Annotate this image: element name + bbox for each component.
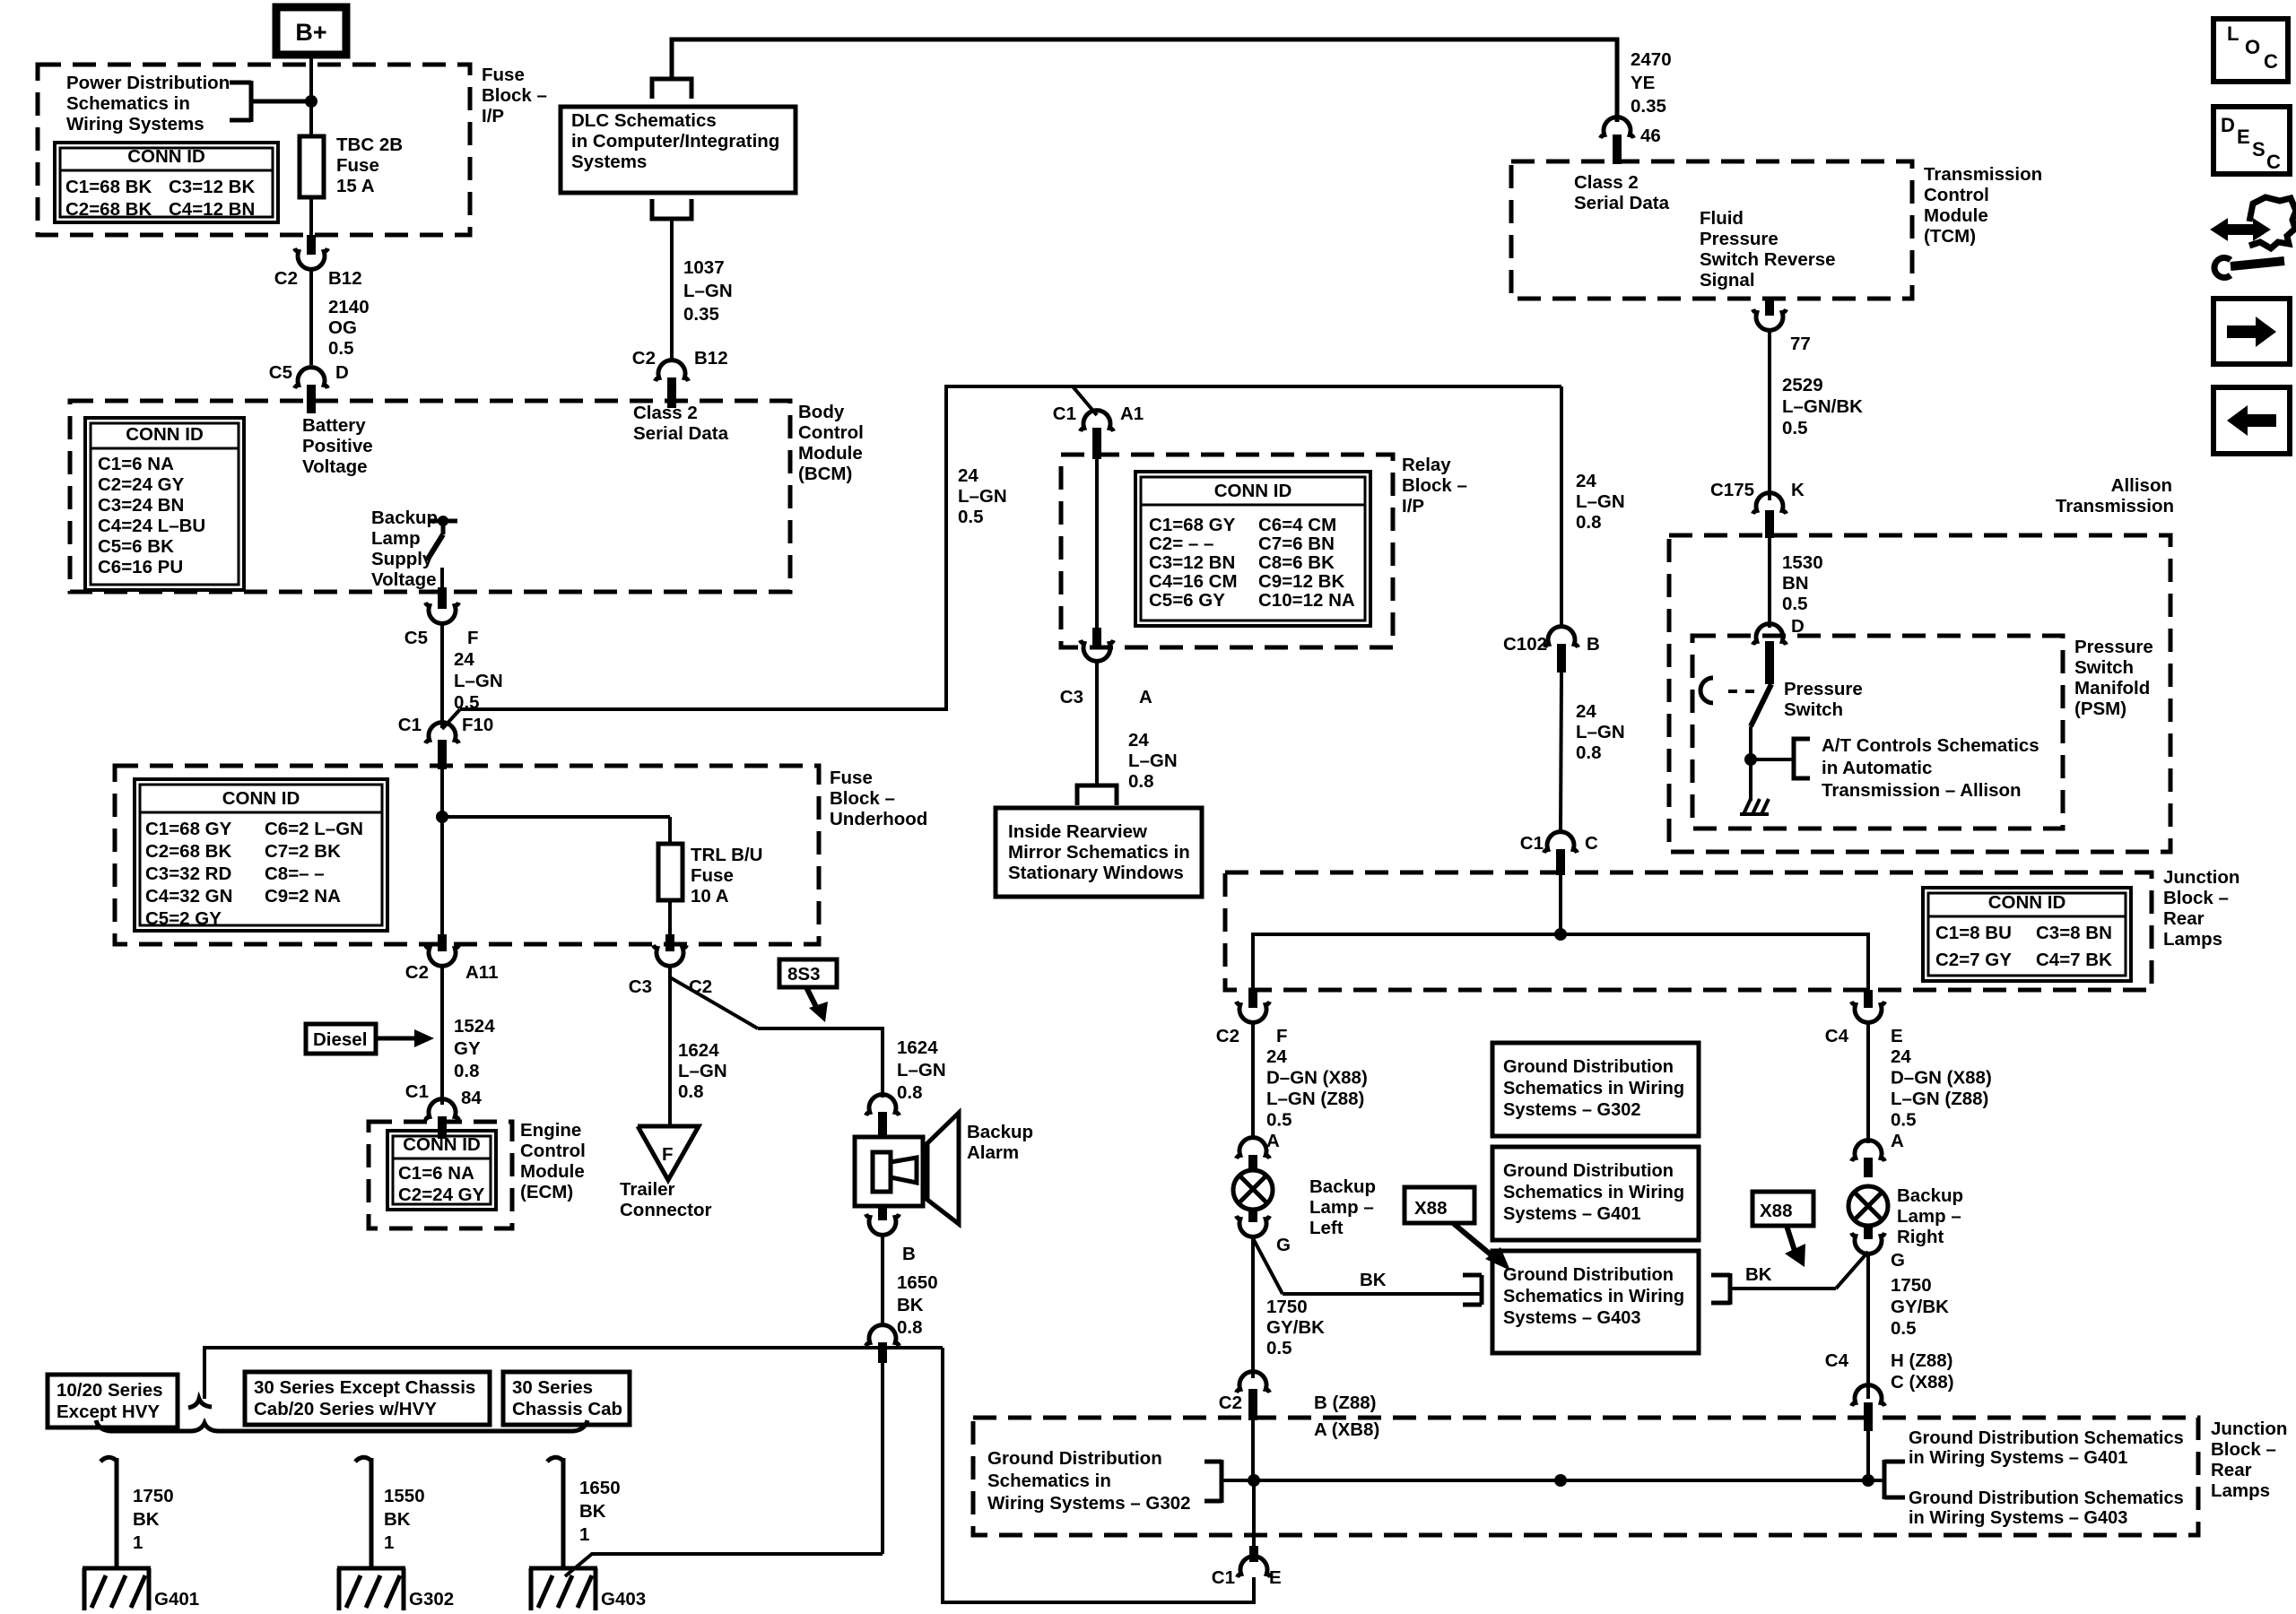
svg-text:DLC Schematics: DLC Schematics xyxy=(571,110,717,131)
power node B+ xyxy=(276,7,346,55)
ground distribution G401 box xyxy=(1492,1147,1699,1240)
PSM internal ground splice xyxy=(1744,735,2039,801)
svg-text:C5=2 GY: C5=2 GY xyxy=(145,908,222,929)
ground G401 xyxy=(83,1568,199,1610)
svg-text:C1=68 GY: C1=68 GY xyxy=(145,819,232,839)
ground wire 1750 BK 1 xyxy=(100,1457,174,1568)
ground distribution G302 box xyxy=(1492,1043,1699,1136)
svg-text:24: 24 xyxy=(1266,1046,1287,1067)
svg-text:C3=12 BK: C3=12 BK xyxy=(169,177,255,197)
connector C2 B12 into BCM xyxy=(632,348,728,408)
svg-text:Relay: Relay xyxy=(1402,455,1451,475)
svg-text:(ECM): (ECM) xyxy=(520,1182,573,1202)
inside rearview mirror schematics box xyxy=(996,785,1202,897)
svg-text:TRL B/U: TRL B/U xyxy=(691,845,762,865)
wire 1530 BN 0.5 xyxy=(1770,538,1823,637)
wire 1524 GY 0.8 84 xyxy=(442,967,495,1108)
connector into backup alarm xyxy=(866,1095,900,1137)
splice on ground line xyxy=(866,1325,900,1554)
transmission control module TCM box xyxy=(1511,161,2042,299)
svg-text:C: C xyxy=(1585,833,1598,854)
svg-text:Pressure: Pressure xyxy=(1784,679,1863,699)
X88 tag right xyxy=(1752,1192,1813,1267)
X88 tag left xyxy=(1405,1187,1510,1271)
BK wire left lamp to G403 xyxy=(1253,1238,1482,1305)
svg-text:BK: BK xyxy=(133,1509,160,1530)
svg-text:CONN ID: CONN ID xyxy=(222,788,300,809)
svg-text:C1=6 NA: C1=6 NA xyxy=(398,1163,474,1184)
svg-text:Cab/20 Series w/HVY: Cab/20 Series w/HVY xyxy=(254,1399,437,1419)
svg-text:F: F xyxy=(467,628,479,648)
svg-text:CONN ID: CONN ID xyxy=(126,424,204,445)
svg-text:Ground Distribution: Ground Distribution xyxy=(1503,1265,1674,1285)
svg-text:Ground Distribution: Ground Distribution xyxy=(1503,1161,1674,1181)
wire 24 D-GN X88 L-GN Z88 right xyxy=(1868,1023,1992,1151)
series tag 30 Series Chassis Cab xyxy=(503,1372,630,1425)
svg-text:X88: X88 xyxy=(1760,1201,1792,1221)
svg-text:Allison: Allison xyxy=(2111,475,2172,496)
svg-text:C1=8 BU: C1=8 BU xyxy=(1935,923,2012,943)
pressure switch xyxy=(1700,678,1863,801)
svg-text:0.5: 0.5 xyxy=(1782,418,1808,438)
svg-text:I/P: I/P xyxy=(482,106,504,126)
svg-text:E: E xyxy=(2237,126,2250,148)
svg-text:C6=2 L–GN: C6=2 L–GN xyxy=(265,819,363,839)
svg-text:Schematics in Wiring: Schematics in Wiring xyxy=(1503,1079,1684,1098)
connector C1 A1 into relay block xyxy=(1053,386,1144,459)
svg-text:1750: 1750 xyxy=(1266,1297,1308,1317)
wire 1650 BK 0.8 xyxy=(883,1236,938,1338)
svg-text:Systems: Systems xyxy=(571,152,647,172)
svg-text:Class 2: Class 2 xyxy=(1574,172,1639,193)
svg-text:0.5: 0.5 xyxy=(328,338,354,359)
svg-text:C5: C5 xyxy=(404,628,428,648)
brackets to G401 G403 notes xyxy=(1868,1428,2184,1528)
wire B+ to fuse xyxy=(309,55,313,136)
series tag 30 Series Except Chassis Cab/20 Series w/HVY xyxy=(245,1372,490,1425)
svg-text:Pressure: Pressure xyxy=(2074,637,2153,657)
svg-text:1750: 1750 xyxy=(133,1486,174,1506)
svg-text:C5=6 GY: C5=6 GY xyxy=(1149,590,1225,611)
svg-text:C1: C1 xyxy=(1212,1567,1235,1588)
bottom bus in junction block xyxy=(1248,1420,1874,1487)
svg-text:Power Distribution: Power Distribution xyxy=(66,73,230,93)
icon DESC xyxy=(2213,107,2290,174)
svg-text:Switch: Switch xyxy=(2074,657,2134,678)
svg-text:0.5: 0.5 xyxy=(1891,1318,1917,1339)
svg-text:L–GN/BK: L–GN/BK xyxy=(1782,396,1863,417)
svg-text:0.5: 0.5 xyxy=(958,507,984,527)
svg-text:24: 24 xyxy=(958,465,978,486)
BK wire right lamp to G403 xyxy=(1711,1252,1868,1305)
junction block internal bus xyxy=(1253,928,1868,990)
icon arrow right xyxy=(2213,299,2290,364)
svg-text:1524: 1524 xyxy=(454,1016,495,1037)
svg-text:C1: C1 xyxy=(398,715,422,735)
svg-text:O: O xyxy=(2245,36,2260,58)
svg-text:BN: BN xyxy=(1782,573,1809,594)
svg-text:Block –: Block – xyxy=(830,788,895,809)
svg-text:2470: 2470 xyxy=(1631,49,1672,70)
svg-text:C3: C3 xyxy=(1060,687,1083,707)
connector C5 D into BCM xyxy=(269,362,349,413)
svg-text:BK: BK xyxy=(897,1295,924,1315)
branch to backup alarm xyxy=(670,977,883,1098)
svg-text:2529: 2529 xyxy=(1782,375,1823,395)
svg-text:10/20 Series: 10/20 Series xyxy=(57,1380,163,1401)
ground inside PSM xyxy=(1740,799,1769,814)
svg-text:24: 24 xyxy=(454,649,474,670)
wire label 24 L-GN 0.5 riser xyxy=(958,465,1007,527)
svg-text:GY/BK: GY/BK xyxy=(1891,1297,1949,1317)
svg-text:Underhood: Underhood xyxy=(830,809,927,829)
svg-text:Positive: Positive xyxy=(302,436,373,456)
svg-text:8S3: 8S3 xyxy=(787,964,820,985)
svg-text:Backup: Backup xyxy=(1309,1176,1376,1197)
connector C175 K xyxy=(1710,480,1805,538)
svg-text:G403: G403 xyxy=(601,1589,646,1610)
backup lamp supply voltage label xyxy=(371,508,438,590)
svg-text:Transmission: Transmission xyxy=(1924,164,2042,185)
svg-text:15 A: 15 A xyxy=(336,176,375,196)
svg-text:B+: B+ xyxy=(295,19,326,46)
svg-text:0.8: 0.8 xyxy=(1576,512,1602,533)
svg-text:in Wiring Systems – G401: in Wiring Systems – G401 xyxy=(1909,1448,2127,1468)
svg-text:C2: C2 xyxy=(274,268,298,289)
svg-text:C6=4 CM: C6=4 CM xyxy=(1258,515,1336,535)
svg-text:C: C xyxy=(2266,151,2281,173)
svg-text:D–GN (X88): D–GN (X88) xyxy=(1891,1068,1992,1089)
wire from C X88 to bus xyxy=(1866,1431,1870,1480)
svg-text:C9=12 BK: C9=12 BK xyxy=(1258,571,1344,592)
svg-text:L–GN: L–GN xyxy=(454,671,503,691)
svg-text:0.8: 0.8 xyxy=(1576,742,1602,763)
svg-text:Signal: Signal xyxy=(1700,270,1755,291)
connector C1 E out of junction block xyxy=(1559,875,1562,934)
ground G302 xyxy=(337,1568,454,1610)
svg-text:L–GN: L–GN xyxy=(683,281,733,301)
svg-text:Voltage: Voltage xyxy=(371,569,437,590)
svg-text:F: F xyxy=(1276,1026,1288,1046)
svg-text:Lamp –: Lamp – xyxy=(1897,1206,1961,1227)
svg-text:BK: BK xyxy=(1745,1264,1772,1285)
svg-text:Schematics in: Schematics in xyxy=(66,93,190,114)
svg-text:C2: C2 xyxy=(632,348,656,369)
wire 1750 GY/BK 0.5 right xyxy=(1868,1254,1949,1399)
svg-text:B (Z88): B (Z88) xyxy=(1314,1393,1376,1413)
svg-text:Except HVY: Except HVY xyxy=(57,1401,160,1422)
svg-text:S: S xyxy=(2252,138,2266,161)
connector C2 F left lamp feed xyxy=(1216,990,1288,1046)
svg-text:24: 24 xyxy=(1891,1046,1911,1067)
svg-text:Lamps: Lamps xyxy=(2211,1480,2270,1501)
svg-text:(BCM): (BCM) xyxy=(798,464,852,484)
svg-text:Inside Rearview: Inside Rearview xyxy=(1008,821,1147,842)
junction block rear lamps box xyxy=(1225,867,2239,990)
svg-text:1650: 1650 xyxy=(579,1478,621,1498)
svg-text:Ground Distribution: Ground Distribution xyxy=(987,1448,1162,1469)
svg-text:Fluid: Fluid xyxy=(1700,208,1744,229)
svg-text:Schematics in Wiring: Schematics in Wiring xyxy=(1503,1183,1684,1202)
connector C1 F10 into underhood fuse block xyxy=(398,715,494,769)
svg-text:L–GN: L–GN xyxy=(958,486,1007,507)
bottom return wire from junction block xyxy=(943,1348,1254,1602)
svg-text:Right: Right xyxy=(1897,1227,1944,1247)
svg-text:Rear: Rear xyxy=(2163,908,2205,929)
wire 24 L-GN 0.8 lower xyxy=(1561,672,1625,830)
svg-text:Diesel: Diesel xyxy=(313,1029,367,1050)
svg-text:in Computer/Integrating: in Computer/Integrating xyxy=(571,131,779,152)
svg-text:C6=16 PU: C6=16 PU xyxy=(98,557,183,577)
backup lamp right xyxy=(1848,1185,1963,1247)
svg-text:L–GN: L–GN xyxy=(1576,722,1625,742)
svg-text:Body: Body xyxy=(798,402,845,422)
svg-text:CONN ID: CONN ID xyxy=(127,146,205,167)
svg-text:Block –: Block – xyxy=(482,85,547,106)
svg-text:C4=12 BN: C4=12 BN xyxy=(169,199,255,220)
svg-text:C4=16 CM: C4=16 CM xyxy=(1149,571,1238,592)
svg-text:E: E xyxy=(1891,1026,1903,1046)
svg-text:C9=2 NA: C9=2 NA xyxy=(265,886,341,907)
svg-text:0.8: 0.8 xyxy=(454,1061,480,1081)
svg-text:1650: 1650 xyxy=(897,1272,938,1293)
svg-text:Fuse: Fuse xyxy=(691,865,734,886)
svg-text:C: C xyxy=(2264,50,2278,73)
connector G right lamp xyxy=(1852,1225,1905,1271)
svg-text:Transmission – Allison: Transmission – Allison xyxy=(1822,780,2022,801)
svg-text:1: 1 xyxy=(384,1532,394,1553)
svg-text:G: G xyxy=(1276,1235,1291,1255)
wire 1037 L-GN 0.35 xyxy=(672,219,733,359)
svg-text:1750: 1750 xyxy=(1891,1275,1932,1296)
svg-text:1037: 1037 xyxy=(683,257,725,278)
fuse TRL B/U 10A xyxy=(658,844,762,907)
svg-text:(PSM): (PSM) xyxy=(2074,699,2126,719)
svg-text:A11: A11 xyxy=(465,962,498,983)
connector B below alarm xyxy=(866,1206,916,1264)
svg-text:C3=12 BN: C3=12 BN xyxy=(1149,552,1235,573)
svg-text:Rear: Rear xyxy=(2211,1460,2252,1480)
svg-text:C1: C1 xyxy=(1520,833,1544,854)
svg-text:Ground Distribution Schematics: Ground Distribution Schematics xyxy=(1909,1428,2184,1448)
svg-text:in Automatic: in Automatic xyxy=(1822,758,1932,778)
connector A right lamp xyxy=(1852,1141,1885,1177)
svg-text:Alarm: Alarm xyxy=(967,1142,1019,1163)
svg-text:Lamps: Lamps xyxy=(2163,929,2222,950)
svg-text:24: 24 xyxy=(1576,471,1596,491)
svg-text:Block –: Block – xyxy=(2163,888,2229,908)
svg-text:Block –: Block – xyxy=(1402,475,1467,496)
svg-text:Block –: Block – xyxy=(2211,1439,2276,1460)
fuse TBC 2B 15A xyxy=(300,134,403,197)
svg-text:C2=24 GY: C2=24 GY xyxy=(398,1184,485,1205)
selection brace xyxy=(96,1420,587,1431)
wire to TRL fuse xyxy=(668,817,672,844)
junction block rear lamps lower box xyxy=(973,1418,2287,1535)
CONN ID table ECM xyxy=(387,1131,496,1210)
BCM pin label class 2 serial data xyxy=(633,403,729,444)
wire fuse to connector C2 xyxy=(309,197,313,235)
svg-text:GY/BK: GY/BK xyxy=(1266,1317,1325,1338)
diesel tag xyxy=(306,1024,434,1054)
wire 1750 GY/BK 0.5 left xyxy=(1253,1238,1325,1378)
icon LOC xyxy=(2213,19,2288,82)
svg-text:Pressure: Pressure xyxy=(1700,229,1779,249)
svg-text:C3=32 RD: C3=32 RD xyxy=(145,863,231,884)
wire through relay block xyxy=(1095,459,1099,628)
TCM pin label class 2 serial data xyxy=(1574,172,1670,213)
svg-text:C5: C5 xyxy=(269,362,292,383)
engine control module ECM box xyxy=(369,1120,586,1228)
svg-text:C4: C4 xyxy=(1825,1350,1849,1371)
svg-text:C4=7 BK: C4=7 BK xyxy=(2036,950,2112,970)
svg-text:0.8: 0.8 xyxy=(678,1081,704,1102)
svg-text:Voltage: Voltage xyxy=(302,456,368,477)
svg-text:Backup: Backup xyxy=(967,1122,1033,1142)
svg-text:B12: B12 xyxy=(328,268,362,289)
backup lamp left xyxy=(1233,1170,1376,1238)
svg-text:G302: G302 xyxy=(409,1589,454,1610)
svg-text:1: 1 xyxy=(579,1524,589,1545)
svg-text:Module: Module xyxy=(520,1161,585,1182)
svg-text:1624: 1624 xyxy=(897,1037,938,1058)
wire 2470 YE 0.35 xyxy=(1631,49,1672,117)
ground bus to series brace xyxy=(204,1348,943,1399)
svg-text:(TCM): (TCM) xyxy=(1924,226,1976,247)
connector C1 C into junction block xyxy=(1520,832,1598,875)
svg-text:C5=6 BK: C5=6 BK xyxy=(98,536,174,557)
body control module BCM box xyxy=(70,401,864,592)
svg-text:D–GN (X88): D–GN (X88) xyxy=(1266,1068,1368,1089)
svg-text:C7=6 BN: C7=6 BN xyxy=(1258,534,1335,554)
svg-text:C1=68 BK: C1=68 BK xyxy=(65,177,152,197)
ground distribution G302 note xyxy=(987,1448,1254,1514)
connector D into PSM xyxy=(1753,624,1787,684)
icon arrow left xyxy=(2213,387,2290,454)
svg-text:46: 46 xyxy=(1640,126,1661,146)
svg-text:Serial Data: Serial Data xyxy=(1574,193,1670,213)
BCM pin label battery positive voltage xyxy=(302,415,373,477)
BCM internal switch xyxy=(427,516,457,587)
wire 1624 L-GN 0.8 trailer xyxy=(670,967,727,1126)
wire inside underhood fuse block xyxy=(440,769,444,934)
svg-text:C175: C175 xyxy=(1710,480,1754,500)
svg-text:Control: Control xyxy=(520,1141,586,1161)
connector C3 A out of relay block xyxy=(1060,628,1152,707)
svg-text:C1=6 NA: C1=6 NA xyxy=(98,454,174,474)
alarm ground wire to G403 xyxy=(565,1554,883,1576)
svg-text:Control: Control xyxy=(798,422,864,443)
svg-text:L–GN (Z88): L–GN (Z88) xyxy=(1266,1089,1364,1109)
DLC schematics box xyxy=(561,79,796,219)
svg-text:Schematics in: Schematics in xyxy=(987,1471,1111,1491)
svg-text:C2= – –: C2= – – xyxy=(1149,534,1213,554)
svg-text:C2: C2 xyxy=(1216,1026,1239,1046)
svg-text:Connector: Connector xyxy=(620,1200,712,1220)
fuse block I/P box xyxy=(38,65,547,235)
svg-text:CONN ID: CONN ID xyxy=(1988,892,2066,913)
svg-text:0.8: 0.8 xyxy=(897,1317,923,1338)
svg-text:84: 84 xyxy=(461,1088,482,1108)
svg-text:1: 1 xyxy=(133,1532,143,1553)
svg-text:Wiring Systems: Wiring Systems xyxy=(66,114,204,134)
svg-text:CONN ID: CONN ID xyxy=(1214,481,1292,501)
svg-text:C4=32 GN: C4=32 GN xyxy=(145,886,232,907)
svg-text:30 Series: 30 Series xyxy=(512,1377,593,1398)
svg-text:0.5: 0.5 xyxy=(1266,1338,1292,1358)
svg-text:Module: Module xyxy=(1924,205,1988,226)
svg-text:0.5: 0.5 xyxy=(1266,1110,1292,1131)
svg-text:0.8: 0.8 xyxy=(897,1082,923,1103)
connector 77 out of TCM xyxy=(1753,299,1811,354)
CONN ID table fuse block underhood xyxy=(135,779,387,931)
CONN ID table fuse block I/P xyxy=(55,143,278,222)
svg-text:B: B xyxy=(902,1244,916,1264)
svg-text:C1: C1 xyxy=(1053,403,1076,424)
8S3 tag xyxy=(779,959,837,1022)
wire 24 L-GN 0.8 to mirror xyxy=(1097,662,1178,792)
svg-text:F: F xyxy=(662,1144,674,1165)
icon hand wrench xyxy=(2212,197,2296,278)
svg-text:A: A xyxy=(1139,687,1152,707)
svg-text:Ground Distribution Schematics: Ground Distribution Schematics xyxy=(1909,1488,2184,1508)
ground G403 xyxy=(529,1568,646,1610)
ground wire 1550 BK 1 xyxy=(355,1457,425,1568)
connector 46 into TCM xyxy=(1601,117,1661,164)
svg-text:L–GN: L–GN xyxy=(678,1061,727,1081)
svg-text:Fuse: Fuse xyxy=(830,768,873,788)
svg-text:C3=24 BN: C3=24 BN xyxy=(98,495,184,516)
svg-text:10 A: 10 A xyxy=(691,886,729,907)
connector A left lamp xyxy=(1237,1138,1270,1171)
svg-text:Systems – G401: Systems – G401 xyxy=(1503,1204,1640,1224)
svg-text:B: B xyxy=(1587,634,1600,655)
svg-text:0.35: 0.35 xyxy=(1631,96,1666,117)
svg-text:C10=12 NA: C10=12 NA xyxy=(1258,590,1355,611)
svg-text:24: 24 xyxy=(1576,701,1596,722)
svg-text:1530: 1530 xyxy=(1782,552,1823,573)
connector C102 B xyxy=(1503,627,1600,672)
svg-text:G: G xyxy=(1891,1250,1905,1271)
relay block I/P box xyxy=(1061,455,1467,647)
svg-text:C4=24 L–BU: C4=24 L–BU xyxy=(98,516,205,536)
svg-text:Battery: Battery xyxy=(302,415,366,436)
connector C4 E right lamp feed xyxy=(1825,990,1903,1046)
wire 24 D-GN X88 L-GN Z88 left xyxy=(1253,1023,1368,1151)
fuse block underhood box xyxy=(115,766,927,944)
svg-text:YE: YE xyxy=(1631,73,1655,93)
backup alarm xyxy=(855,1113,1033,1224)
branch to relay block feed line xyxy=(442,386,1561,729)
svg-text:C2: C2 xyxy=(405,962,429,983)
svg-text:C1: C1 xyxy=(405,1081,429,1102)
brace squiggle at riser xyxy=(188,1399,212,1408)
svg-text:Supply: Supply xyxy=(371,549,433,569)
wire 2529 L-GN/BK 0.5 xyxy=(1770,331,1863,500)
svg-text:Stationary Windows: Stationary Windows xyxy=(1008,863,1184,883)
svg-text:30 Series Except Chassis: 30 Series Except Chassis xyxy=(254,1377,475,1398)
top bus wire to DLC and TCM xyxy=(672,39,1617,122)
svg-text:Lamp –: Lamp – xyxy=(1309,1197,1374,1218)
svg-text:X88: X88 xyxy=(1414,1198,1447,1219)
Allison transmission box xyxy=(1669,475,2174,852)
svg-text:0.8: 0.8 xyxy=(1128,771,1154,792)
svg-text:C2=68 BK: C2=68 BK xyxy=(145,841,231,862)
svg-text:A1: A1 xyxy=(1120,403,1144,424)
svg-text:C2=24 GY: C2=24 GY xyxy=(98,474,185,495)
wire 24 L-GN 0.8 upper right xyxy=(1561,386,1625,625)
connector G left lamp xyxy=(1237,1208,1291,1255)
